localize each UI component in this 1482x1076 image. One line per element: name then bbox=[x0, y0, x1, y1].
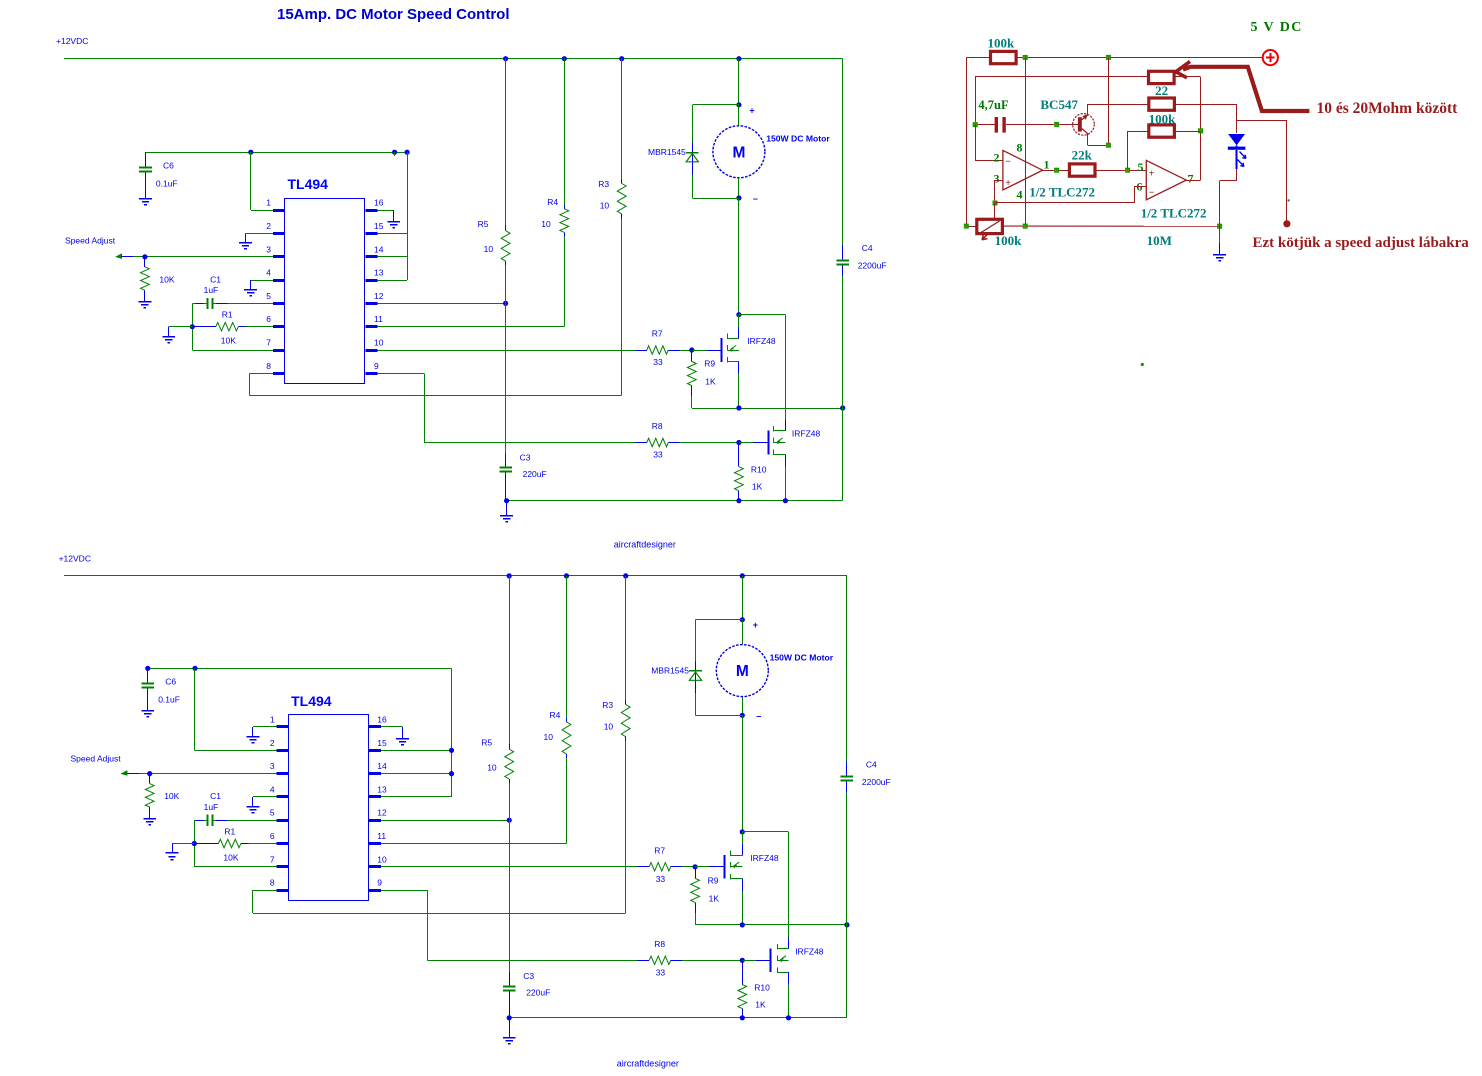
svg-text:13: 13 bbox=[377, 784, 387, 794]
ground at pin16 (bot) bbox=[396, 739, 409, 745]
svg-text:4: 4 bbox=[1017, 188, 1023, 202]
junction dot Speed Adjust (bot) bbox=[147, 771, 152, 776]
capacitor C1 (top) bbox=[192, 274, 273, 309]
wire Q2 source to bottom rail (bot) bbox=[788, 972, 790, 1018]
svg-text:1/2 TLC272: 1/2 TLC272 bbox=[1029, 185, 1095, 200]
wire op2 pin6 input loop bbox=[995, 186, 1146, 203]
diode D1 MBR1545 (bot) bbox=[651, 620, 742, 716]
svg-text:220uF: 220uF bbox=[523, 469, 547, 479]
wire cap/22-resistor feedback line bbox=[975, 77, 1200, 125]
svg-text:100k: 100k bbox=[995, 233, 1023, 248]
svg-text:+: + bbox=[1005, 178, 1011, 189]
svg-text:R5: R5 bbox=[481, 738, 492, 748]
svg-text:TL494: TL494 bbox=[288, 176, 329, 192]
resistor 100k (middle) bbox=[1149, 98, 1177, 127]
wire gate node to Q2 (bot) bbox=[742, 960, 771, 962]
junction dot R1 (top) bbox=[190, 324, 195, 329]
svg-text:R7: R7 bbox=[652, 329, 663, 339]
node square cap left bbox=[973, 122, 978, 127]
svg-text:+12VDC: +12VDC bbox=[59, 554, 91, 564]
svg-text:R10: R10 bbox=[754, 982, 770, 992]
svg-text:1K: 1K bbox=[755, 999, 766, 1009]
IC TL494 pin stubs (top) bbox=[273, 211, 378, 374]
svg-text:R4: R4 bbox=[547, 197, 558, 207]
svg-text:+: + bbox=[1149, 168, 1155, 179]
resistor R3 10 (top) bbox=[598, 59, 626, 396]
resistor 22 bbox=[1149, 71, 1175, 98]
svg-text:11: 11 bbox=[374, 314, 383, 324]
capacitor C3 220uF (bot) bbox=[503, 820, 550, 1018]
svg-text:10: 10 bbox=[544, 732, 554, 742]
resistor R10 1K (bot) bbox=[738, 960, 770, 1018]
svg-text:10 és 20Mohm között: 10 és 20Mohm között bbox=[1317, 100, 1459, 117]
wire pins 15/14/13 vertical (top) bbox=[378, 152, 408, 280]
wire op1 pin3 input bbox=[995, 180, 1003, 203]
wire source rail (top) bbox=[692, 408, 843, 410]
stray dot teal bbox=[1287, 199, 1289, 201]
svg-text:12: 12 bbox=[377, 808, 387, 818]
svg-text:7: 7 bbox=[266, 338, 271, 348]
wire pin4 to ground (bot) bbox=[253, 797, 277, 807]
junction dot gate Q1 (top) bbox=[689, 347, 694, 352]
wire Speed Adjust to pin3 (top) bbox=[116, 254, 273, 258]
svg-text:220uF: 220uF bbox=[526, 988, 550, 998]
svg-text:10M: 10M bbox=[1147, 233, 1172, 248]
svg-text:R1: R1 bbox=[224, 827, 235, 837]
resistor R5 10 (bot) bbox=[481, 576, 513, 820]
svg-text:33: 33 bbox=[656, 874, 666, 884]
wire pin11 to R4 (bot) bbox=[381, 754, 567, 843]
capacitor C4 2200uF (bot) bbox=[841, 576, 891, 1018]
wire/ground below bottom-right node bbox=[1219, 226, 1221, 254]
wire pin1 to VCC net (top) bbox=[251, 152, 274, 210]
ground below 10K (top) bbox=[139, 302, 152, 308]
svg-text:33: 33 bbox=[653, 357, 663, 367]
wire 22k to op2 +input bbox=[1095, 170, 1146, 172]
svg-text:M: M bbox=[736, 663, 749, 680]
wire Speed Adjust to pin3 (bot) bbox=[122, 771, 277, 775]
wire +12V to motor (top) bbox=[738, 59, 740, 105]
diode D1 MBR1545 (top) bbox=[648, 105, 739, 199]
junction dot Speed Adjust (top) bbox=[142, 254, 147, 259]
svg-text:10K: 10K bbox=[223, 853, 238, 863]
wire +12VDC rail (bot) bbox=[64, 575, 847, 577]
svg-text:C1: C1 bbox=[210, 791, 221, 801]
net label Speed Adjust (bot) bbox=[71, 754, 122, 764]
wire op1 output to 22k bbox=[1043, 170, 1070, 172]
svg-text:MBR1545: MBR1545 bbox=[651, 665, 689, 675]
svg-text:6: 6 bbox=[266, 314, 271, 324]
stray dot green bbox=[1141, 363, 1144, 366]
junction dots ground rail (bot) bbox=[507, 1015, 792, 1020]
op-amp U1A 1/2 TLC272 bbox=[994, 141, 1096, 202]
junction dot gate Q2 (top) bbox=[736, 440, 741, 445]
svg-text:M: M bbox=[732, 144, 745, 161]
ground (op-amp circuit) bbox=[1213, 255, 1226, 261]
wire motor - to MOSFETs (top) bbox=[738, 198, 740, 315]
junction dots on C6 net (bot) bbox=[145, 666, 197, 671]
svg-text:10K: 10K bbox=[164, 791, 179, 801]
wire gate node to Q2 (top) bbox=[739, 442, 768, 444]
svg-text:R7: R7 bbox=[654, 845, 665, 855]
wire +5V top rail bbox=[966, 57, 1262, 59]
junction dot drain node (bot) bbox=[740, 829, 745, 834]
svg-text:aircraftdesigner: aircraftdesigner bbox=[614, 539, 676, 549]
resistor R10 1K (top) bbox=[735, 443, 767, 501]
svg-text:12: 12 bbox=[374, 291, 384, 301]
svg-text:5 V DC: 5 V DC bbox=[1251, 20, 1303, 35]
node square pin3/pin6 node bbox=[993, 201, 998, 206]
motor M1 150W DC Motor (top) bbox=[713, 105, 830, 198]
svg-text:10: 10 bbox=[541, 219, 551, 229]
junction dot drain node (top) bbox=[736, 312, 741, 317]
svg-text:C4: C4 bbox=[866, 760, 877, 770]
LED D2 (blue) bbox=[1228, 121, 1246, 169]
svg-text:3: 3 bbox=[270, 761, 275, 771]
wire drain node to Q2 drain (top) bbox=[739, 315, 786, 432]
label Ezt kotjuk a speed adjust labakra bbox=[1253, 235, 1470, 251]
svg-text:16: 16 bbox=[374, 198, 384, 208]
stub below junction (top) bbox=[394, 152, 396, 156]
svg-text:R10: R10 bbox=[751, 465, 767, 475]
wire pin8 to R3 bottom (bot) bbox=[253, 890, 626, 913]
resistor 10K speed-adjust (top) bbox=[141, 257, 175, 302]
ground below C3 (top) bbox=[500, 501, 513, 522]
svg-text:22: 22 bbox=[1155, 83, 1168, 98]
ground at pin2 (top) bbox=[239, 243, 252, 249]
wire pin4 to ground (top) bbox=[251, 280, 274, 290]
svg-text:Ezt kötjük a speed adjust lába: Ezt kötjük a speed adjust lábakra bbox=[1253, 235, 1470, 251]
wire source rail (bot) bbox=[695, 924, 847, 926]
svg-text:100k: 100k bbox=[988, 36, 1016, 51]
svg-text:IRFZ48: IRFZ48 bbox=[792, 429, 821, 439]
svg-text:3: 3 bbox=[266, 244, 271, 254]
node square op2 +input bbox=[1125, 168, 1130, 173]
svg-text:9: 9 bbox=[374, 361, 379, 371]
node square box3-right bbox=[1198, 128, 1203, 133]
MOSFET Q2 IRFZ48 (top) bbox=[769, 426, 821, 455]
wire 100k middle to LED bbox=[1174, 104, 1287, 121]
svg-text:15: 15 bbox=[377, 738, 387, 748]
svg-text:IRFZ48: IRFZ48 bbox=[747, 336, 776, 346]
ground below 10K (bot) bbox=[143, 819, 156, 825]
svg-text:1K: 1K bbox=[752, 482, 763, 492]
wire Q1 source to source rail (bot) bbox=[742, 879, 744, 925]
wire pin10 to R7 (top) bbox=[378, 350, 635, 352]
svg-text:8: 8 bbox=[1017, 141, 1023, 155]
svg-text:8: 8 bbox=[266, 361, 271, 371]
photoresistor pointer thick wire bbox=[1176, 62, 1310, 112]
signature aircraftdesigner (top) bbox=[614, 539, 676, 549]
capacitor C4 2200uF (top) bbox=[836, 59, 886, 501]
svg-text:150W DC Motor: 150W DC Motor bbox=[770, 652, 834, 662]
svg-text:4: 4 bbox=[266, 268, 271, 278]
resistor R4 10 (top) bbox=[541, 59, 568, 237]
svg-text:C4: C4 bbox=[862, 243, 873, 253]
wire VCC/C6 net (bot) bbox=[148, 668, 452, 670]
potentiometer 100k bbox=[977, 203, 1022, 248]
resistor 100k (lower, feedback) bbox=[1128, 125, 1201, 170]
wire pins 15/14/13 vertical (bot) bbox=[381, 668, 452, 797]
svg-text:–: – bbox=[753, 194, 758, 204]
capacitor C6 (bot) bbox=[142, 668, 180, 710]
ground at pin16 (top) bbox=[387, 222, 400, 228]
ground below C6 (bot) bbox=[141, 711, 154, 717]
resistor 100k (top-left) bbox=[988, 36, 1017, 64]
resistor 10K speed-adjust (bot) bbox=[145, 774, 179, 819]
junction dots pins15/14 (bottom) bbox=[449, 748, 454, 777]
svg-text:11: 11 bbox=[377, 831, 386, 841]
resistor R9 1K (top) bbox=[687, 350, 716, 408]
svg-text:6: 6 bbox=[270, 831, 275, 841]
svg-text:R1: R1 bbox=[222, 310, 233, 320]
svg-text:2200uF: 2200uF bbox=[858, 261, 887, 271]
wire R1 to ground (bot) bbox=[172, 844, 194, 854]
wire left vertical to pot bbox=[966, 57, 968, 226]
junction dot gate Q2 (bot) bbox=[740, 958, 745, 963]
wire LED cathode to bottom rail bbox=[1220, 169, 1237, 226]
capacitor C1 (bot) bbox=[194, 791, 276, 826]
junction dot motor + (top) bbox=[736, 102, 754, 115]
svg-text:1uF: 1uF bbox=[204, 285, 219, 295]
node squares on +5V rail bbox=[1023, 55, 1111, 60]
svg-text:Speed Adjust: Speed Adjust bbox=[71, 754, 122, 764]
svg-text:10: 10 bbox=[487, 763, 497, 773]
svg-text:R9: R9 bbox=[708, 875, 719, 885]
resistor R9 1K (bot) bbox=[691, 867, 720, 925]
wire op1 V+/V- vertical bbox=[1025, 57, 1027, 226]
svg-text:7: 7 bbox=[270, 854, 275, 864]
resistor R8 33 (top) bbox=[635, 421, 739, 460]
svg-text:C6: C6 bbox=[163, 161, 174, 171]
wire pin16 to ground (bot) bbox=[381, 727, 403, 739]
wire C1/R1/pin7 left loop (bot) bbox=[194, 820, 276, 867]
wire pin10 to R7 (bot) bbox=[381, 866, 637, 868]
wire VCC/C6 net (top) bbox=[146, 152, 408, 154]
svg-text:1/2 TLC272: 1/2 TLC272 bbox=[1141, 206, 1207, 221]
node square base node bbox=[1054, 122, 1059, 127]
wire pin1 to ground (bottom) bbox=[253, 727, 277, 737]
wire +12VDC rail (top) bbox=[64, 58, 843, 60]
wire pin2 to ground (top) bbox=[246, 234, 274, 243]
wire pin12 to R5 (bot) bbox=[381, 820, 509, 822]
svg-text:2: 2 bbox=[994, 151, 1000, 165]
junction dot motor + (bot) bbox=[740, 617, 758, 630]
resistor 22k bbox=[1069, 148, 1095, 177]
net label 5 V DC bbox=[1251, 20, 1303, 35]
svg-text:10: 10 bbox=[374, 338, 384, 348]
junction dot gate Q1 (bot) bbox=[693, 864, 698, 869]
svg-text:aircraftdesigner: aircraftdesigner bbox=[617, 1059, 679, 1069]
svg-text:R8: R8 bbox=[654, 939, 665, 949]
wire pin12 to R5 (top) bbox=[378, 303, 506, 305]
svg-text:1: 1 bbox=[1044, 157, 1050, 171]
svg-text:0.1uF: 0.1uF bbox=[158, 695, 180, 705]
svg-text:5: 5 bbox=[270, 808, 275, 818]
resistor R3 10 (bot) bbox=[602, 576, 630, 913]
svg-text:33: 33 bbox=[653, 450, 663, 460]
wire 22 resistor to LED string vertical bbox=[1200, 77, 1202, 180]
svg-text:9: 9 bbox=[377, 878, 382, 888]
wire gate node to Q1 (bot) bbox=[695, 866, 724, 868]
op-amp U1B 1/2 TLC272 bbox=[1137, 160, 1207, 221]
svg-text:15Amp. DC Motor Speed Control: 15Amp. DC Motor Speed Control bbox=[277, 6, 510, 23]
svg-text:R9: R9 bbox=[704, 359, 715, 369]
svg-text:1: 1 bbox=[270, 715, 275, 725]
svg-text:5: 5 bbox=[1138, 160, 1144, 174]
junction dot pin12/R5 (top) bbox=[503, 301, 508, 306]
svg-text:13: 13 bbox=[374, 268, 384, 278]
svg-text:10K: 10K bbox=[221, 336, 236, 346]
svg-text:C1: C1 bbox=[210, 274, 221, 284]
wire C1/R1/pin7 left loop (top) bbox=[192, 303, 273, 350]
svg-text:14: 14 bbox=[377, 761, 387, 771]
wire pin16 to ground (top) bbox=[378, 210, 394, 221]
svg-text:–: – bbox=[756, 711, 761, 721]
wire ground rail (top) bbox=[507, 500, 843, 502]
svg-text:C6: C6 bbox=[165, 677, 176, 687]
junction dot motor - (bot) bbox=[740, 711, 762, 721]
svg-text:5: 5 bbox=[266, 291, 271, 301]
transistor Q3 BC547 bbox=[1040, 97, 1108, 146]
node square emitter bbox=[1106, 143, 1111, 148]
svg-text:0.1uF: 0.1uF bbox=[156, 178, 178, 188]
terminal dot speed adjust bbox=[1283, 220, 1290, 227]
capacitor C3 220uF (top) bbox=[499, 303, 546, 500]
resistor R8 33 (bot) bbox=[637, 939, 742, 978]
wire Q1 source to source rail (top) bbox=[738, 362, 740, 408]
wire ground rail (bot) bbox=[509, 1017, 847, 1019]
ground at R1 (top) bbox=[162, 337, 175, 343]
svg-text:−: − bbox=[1005, 156, 1011, 167]
svg-text:+12VDC: +12VDC bbox=[56, 36, 88, 46]
resistor R1 10K (bot) bbox=[194, 827, 276, 863]
svg-text:10: 10 bbox=[600, 201, 610, 211]
junction dot pin12/R5 (bot) bbox=[507, 818, 512, 823]
node square bottom-right bbox=[1217, 224, 1222, 229]
wire collector to 100k bbox=[1088, 104, 1149, 106]
svg-text:4: 4 bbox=[270, 784, 275, 794]
junction dots on C6 net (top) bbox=[248, 150, 410, 155]
net label +12VDC (bot) bbox=[59, 554, 91, 564]
svg-text:+: + bbox=[753, 620, 758, 630]
svg-text:1: 1 bbox=[266, 198, 271, 208]
svg-text:2: 2 bbox=[266, 221, 271, 231]
svg-text:2200uF: 2200uF bbox=[862, 777, 891, 787]
ground at pin4 (top) bbox=[244, 290, 257, 296]
IC TL494 pin numbers (top) bbox=[266, 198, 383, 371]
svg-text:1K: 1K bbox=[709, 893, 720, 903]
wire +12V to motor (bot) bbox=[742, 576, 744, 620]
MOSFET Q2 IRFZ48 (bot) bbox=[771, 944, 824, 973]
svg-text:R3: R3 bbox=[602, 700, 613, 710]
power symbol +5V bbox=[1263, 50, 1278, 65]
IC U-TL494 box (top) bbox=[285, 176, 365, 384]
junction dots on +12VDC rail (top) bbox=[503, 56, 742, 61]
wire R1 to ground (top) bbox=[169, 327, 193, 337]
svg-text:Speed Adjust: Speed Adjust bbox=[65, 236, 116, 246]
svg-text:1K: 1K bbox=[705, 377, 716, 387]
svg-text:R3: R3 bbox=[598, 179, 609, 189]
ground at pin4 (bot) bbox=[247, 807, 260, 813]
junction dots on +12VDC rail (bot) bbox=[507, 573, 745, 578]
svg-text:+: + bbox=[749, 105, 754, 115]
wire pin9 to R8 (bot) bbox=[381, 890, 637, 960]
resistor R5 10 (top) bbox=[478, 59, 510, 304]
svg-text:33: 33 bbox=[656, 967, 666, 977]
IC TL494 pin numbers (bot) bbox=[270, 715, 387, 888]
wire right vertical to speed-adjust dot bbox=[1286, 121, 1288, 220]
resistor R4 10 (bot) bbox=[544, 576, 571, 758]
IC U-TL494 box (bot) bbox=[289, 693, 369, 901]
svg-text:7: 7 bbox=[1188, 172, 1194, 186]
wire emitter vertical bbox=[1108, 57, 1110, 145]
svg-text:R8: R8 bbox=[652, 421, 663, 431]
svg-text:10: 10 bbox=[604, 721, 614, 731]
wire drain node to Q2 drain (bot) bbox=[742, 832, 788, 949]
ground at R1 (bot) bbox=[166, 853, 179, 860]
svg-text:8: 8 bbox=[270, 878, 275, 888]
svg-text:2: 2 bbox=[270, 738, 275, 748]
ground below C6 (top) bbox=[139, 199, 152, 205]
svg-text:C3: C3 bbox=[520, 453, 531, 463]
resistor R1 10K (top) bbox=[192, 310, 273, 346]
wire pin8 to R3 bottom (top) bbox=[250, 373, 622, 395]
resistor R7 33 (top) bbox=[635, 329, 692, 368]
node square pot right bbox=[1023, 224, 1028, 229]
svg-text:22k: 22k bbox=[1072, 148, 1093, 163]
label 10 es 20Mohm kozott bbox=[1317, 100, 1459, 117]
resistor R7 33 (bot) bbox=[637, 845, 695, 884]
svg-text:10K: 10K bbox=[159, 274, 174, 284]
svg-text:150W DC Motor: 150W DC Motor bbox=[766, 134, 830, 144]
svg-text:BC547: BC547 bbox=[1040, 97, 1078, 112]
wire Q2 source to bottom rail (top) bbox=[785, 454, 787, 500]
IC TL494 pin stubs (bot) bbox=[277, 727, 381, 891]
capacitor C6 (top) bbox=[139, 152, 177, 198]
svg-text:IRFZ48: IRFZ48 bbox=[795, 946, 824, 956]
wire pot left bbox=[966, 226, 977, 228]
wire pot right / bottom rail 10M bbox=[1002, 226, 1219, 248]
svg-text:−: − bbox=[1149, 187, 1155, 198]
svg-text:R5: R5 bbox=[478, 219, 489, 229]
junction dot motor - (top) bbox=[736, 194, 758, 204]
capacitor 4,7uF bbox=[975, 98, 1078, 133]
junction dots source rail (bot) bbox=[740, 922, 850, 927]
svg-text:C3: C3 bbox=[523, 971, 534, 981]
svg-text:14: 14 bbox=[374, 244, 384, 254]
wire pin2 vertical bbox=[975, 125, 1003, 161]
ground below C3 (bot) bbox=[503, 1018, 516, 1044]
svg-text:1uF: 1uF bbox=[204, 802, 219, 812]
motor M1 150W DC Motor (bot) bbox=[716, 620, 833, 716]
wire op2 output bbox=[1186, 180, 1200, 182]
wire pin9 to R8 (top) bbox=[378, 373, 635, 442]
node square pot left bbox=[964, 224, 969, 229]
node square op1 output bbox=[1054, 168, 1059, 173]
junction dots ground rail (top) bbox=[504, 498, 788, 503]
junction dot R1 (bot) bbox=[192, 841, 197, 846]
svg-text:16: 16 bbox=[377, 715, 387, 725]
wire motor - to MOSFETs (bot) bbox=[742, 715, 744, 832]
svg-text:4,7uF: 4,7uF bbox=[978, 98, 1009, 112]
wire pin2 to VCC net (bottom) bbox=[195, 668, 277, 750]
MOSFET Q1 IRFZ48 (bot) bbox=[725, 832, 779, 879]
wire pin11 to R4 (top) bbox=[378, 232, 565, 326]
net label Speed Adjust (top) bbox=[65, 236, 116, 246]
junction dots source rail (top) bbox=[736, 405, 845, 410]
title: 15Amp. DC Motor Speed Control bbox=[277, 6, 510, 23]
